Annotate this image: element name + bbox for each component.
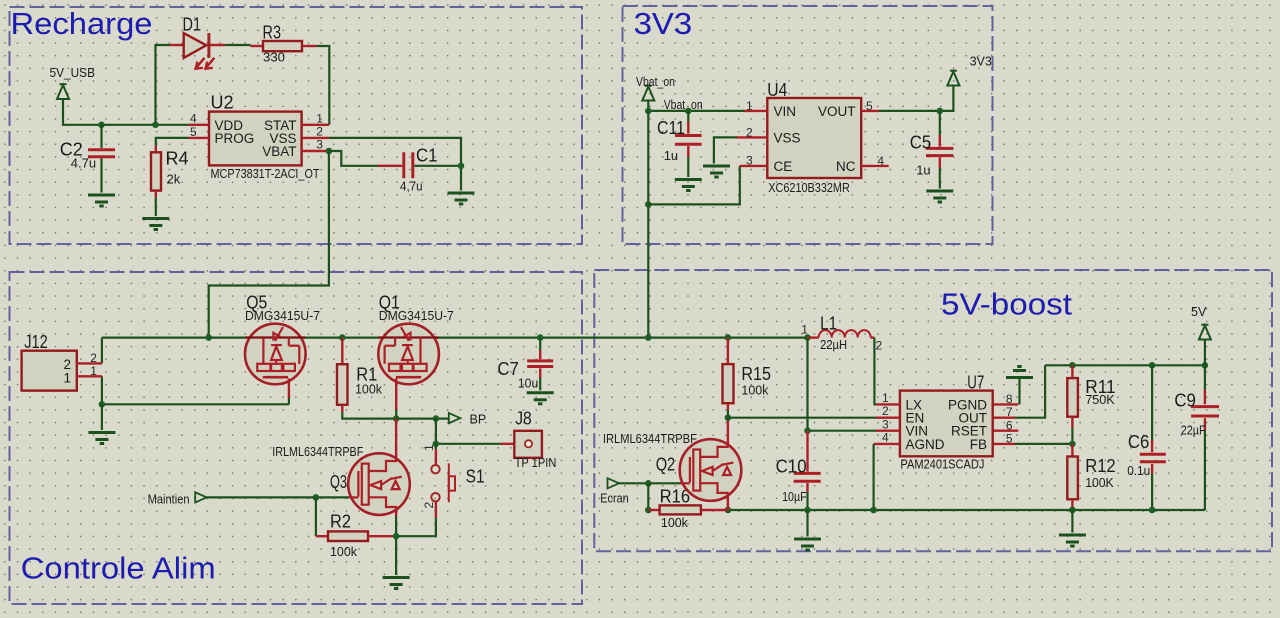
wire 5V_USB rail (63, 99, 189, 125)
wire Q3 source (395, 510, 397, 575)
transistor Q2 (680, 439, 742, 501)
node junction C1 right (458, 163, 465, 170)
wire to ground (101, 404, 103, 430)
svg-text:2: 2 (316, 125, 323, 139)
svg-text:BP: BP (470, 412, 487, 426)
svg-text:R12: R12 (1085, 456, 1116, 476)
node junction FB (1069, 441, 1076, 448)
node junction R2 right (393, 533, 400, 540)
node junction J8 (433, 441, 440, 448)
inductor L1 (808, 330, 875, 337)
node junction C11 (685, 108, 692, 115)
node junction CE (645, 201, 652, 208)
wire BP drop to J8/S1 (436, 419, 501, 444)
svg-text:1: 1 (422, 444, 436, 451)
svg-text:S1: S1 (466, 467, 485, 487)
arrow Maintien (195, 492, 207, 502)
svg-text:AGND: AGND (906, 437, 945, 452)
wire VSS to ground (714, 137, 737, 163)
switch S1 (431, 444, 455, 518)
svg-text:Q3: Q3 (330, 472, 347, 492)
svg-text:C11: C11 (657, 118, 685, 138)
wire VOUT to 3V3 (879, 86, 953, 111)
svg-text:100k: 100k (661, 515, 688, 530)
svg-text:100k: 100k (330, 544, 357, 559)
node junction recharge drop (205, 334, 212, 341)
ground C10 (794, 539, 821, 550)
ground C7 (527, 393, 554, 404)
capacitor C6 (1140, 365, 1166, 510)
svg-text:2: 2 (876, 339, 883, 353)
svg-text:VOUT: VOUT (818, 104, 856, 119)
svg-text:2: 2 (882, 404, 889, 418)
svg-text:Maintien: Maintien (148, 493, 190, 507)
ground R4 (142, 219, 169, 230)
ground J12 (88, 433, 115, 444)
svg-text:4: 4 (877, 154, 884, 168)
wire VIN branch (808, 338, 877, 431)
frame 3V3 (623, 6, 993, 244)
chip U4 (737, 98, 889, 178)
svg-text:R15: R15 (741, 364, 771, 384)
capacitor C7 (527, 338, 553, 391)
svg-text:5: 5 (1006, 432, 1013, 446)
power Vbat_on (642, 86, 654, 101)
node junction L1 left (804, 334, 811, 341)
svg-text:IRLML6344TRPBF: IRLML6344TRPBF (603, 431, 697, 446)
svg-text:3V3: 3V3 (634, 6, 693, 41)
node junction 5V stem (1202, 362, 1209, 369)
svg-text:R3: R3 (263, 23, 282, 43)
wire Q5 source down (288, 378, 290, 404)
svg-text:CE: CE (774, 159, 793, 174)
wire PROG to R4 (156, 138, 189, 146)
svg-text:R2: R2 (330, 511, 351, 531)
capacitor C1 (378, 152, 461, 178)
wire J12 pin2 up (101, 338, 103, 364)
svg-text:PAM2401SCADJ: PAM2401SCADJ (900, 456, 984, 471)
capacitor C2 (88, 125, 115, 193)
svg-text:Vbat_on: Vbat_on (664, 98, 703, 112)
node junction C6 top (1149, 362, 1156, 369)
svg-text:1: 1 (746, 99, 753, 113)
wire AGND down (872, 444, 874, 510)
svg-text:4: 4 (882, 431, 889, 445)
resistor R3 (251, 41, 317, 51)
svg-text:DMG3415U-7: DMG3415U-7 (245, 308, 320, 323)
capacitor C10 (794, 431, 821, 510)
wire Q3 drain (395, 419, 397, 458)
node junction Vbat main (645, 334, 652, 341)
resistor R11 (1067, 365, 1078, 444)
ground U4 VSS (703, 166, 730, 177)
svg-text:330: 330 (263, 50, 285, 65)
node junction rail AGND (870, 507, 877, 514)
frame Recharge (10, 7, 583, 244)
svg-text:7: 7 (1006, 405, 1013, 419)
svg-text:C7: C7 (497, 359, 519, 379)
wire R3 to STAT (317, 46, 330, 125)
svg-text:U7: U7 (967, 372, 984, 392)
svg-text:Recharge: Recharge (11, 6, 153, 41)
ground PGND (flipped up) (1006, 367, 1033, 378)
svg-text:100K: 100K (1085, 475, 1114, 490)
svg-text:1: 1 (801, 323, 808, 337)
node junction rail C6 (1149, 507, 1156, 514)
testpoint J8 (501, 431, 542, 458)
svg-text:C1: C1 (416, 146, 438, 166)
resistor R15 (723, 338, 734, 418)
connector J12 (22, 351, 102, 391)
wire C10 ground stem (806, 510, 808, 537)
svg-text:100k: 100k (355, 382, 382, 397)
svg-text:TP 1PIN: TP 1PIN (515, 455, 557, 470)
svg-text:4,7u: 4,7u (400, 179, 423, 194)
wire R4 to ground (155, 198, 157, 217)
wire OUT up to rail (1015, 365, 1045, 417)
arrow BP (449, 413, 461, 423)
ground VSS/C1 (448, 193, 475, 204)
node junction J12 gnd (99, 401, 106, 408)
node junction C7 (537, 334, 544, 341)
svg-text:R4: R4 (166, 149, 189, 169)
wire Q2 source (727, 496, 729, 510)
wire Q1 source down (395, 378, 397, 418)
node junction VBAT (326, 148, 333, 155)
svg-text:1: 1 (882, 391, 889, 405)
svg-text:2: 2 (746, 126, 753, 140)
node junction D1 (152, 122, 159, 129)
svg-text:10µF: 10µF (782, 489, 807, 504)
wire Q2 drain (727, 418, 729, 444)
svg-text:22µF: 22µF (1181, 422, 1206, 437)
capacitor C11 (675, 111, 702, 177)
transistor Q5 (245, 324, 306, 385)
wire L1 to LX (874, 338, 876, 405)
svg-text:6: 6 (1006, 418, 1013, 432)
svg-text:VBAT: VBAT (262, 144, 296, 159)
svg-text:3: 3 (882, 417, 889, 431)
wire Ecran to Q2 gate (619, 482, 681, 484)
wire FB (1015, 443, 1072, 445)
svg-text:Q2: Q2 (656, 454, 676, 474)
wire D1 to R3 (225, 44, 251, 46)
wire EN (728, 417, 876, 419)
svg-text:C9: C9 (1174, 390, 1196, 410)
svg-text:Ecran: Ecran (600, 492, 628, 506)
ground C11 (675, 180, 702, 191)
wire PGND up (1018, 379, 1020, 405)
node junction VIN/C10 (804, 427, 811, 434)
wire Ecran down to R16 (647, 483, 649, 510)
svg-text:J8: J8 (515, 408, 532, 428)
node junction Q1 source (393, 415, 400, 422)
svg-text:IRLML6344TRPBF: IRLML6344TRPBF (272, 444, 363, 459)
wire R12 to ground (1071, 510, 1073, 533)
resistor R4 (151, 146, 161, 198)
svg-text:Controle Alim: Controle Alim (21, 551, 216, 586)
svg-text:NC: NC (836, 159, 856, 174)
svg-text:Vbat_on: Vbat_on (636, 75, 675, 89)
wire VBAT jog to C1 (329, 151, 378, 166)
node junction C2 (98, 122, 105, 129)
svg-text:3V3: 3V3 (970, 55, 992, 69)
resistor R16 (648, 505, 728, 514)
resistor R2 (316, 531, 396, 541)
wire top rail (1045, 364, 1205, 366)
svg-text:750K: 750K (1085, 392, 1115, 407)
svg-text:U2: U2 (211, 93, 234, 113)
svg-text:5V_USB: 5V_USB (50, 66, 96, 80)
arrow Ecran (608, 478, 620, 488)
wire bottom rail (728, 509, 1205, 511)
svg-text:3: 3 (316, 138, 323, 152)
node junction R16 left (645, 507, 652, 514)
svg-text:1u: 1u (916, 162, 930, 177)
power 5V (1199, 325, 1211, 340)
ground C2 (88, 195, 115, 206)
node junction BP drop (433, 415, 440, 422)
ground Q3 (383, 578, 410, 589)
resistor R1 (337, 338, 348, 412)
wire VBAT down to Controle Alim (209, 151, 329, 338)
svg-text:VIN: VIN (774, 104, 797, 119)
node junction R1 top (339, 334, 346, 341)
svg-text:DMG3415U-7: DMG3415U-7 (379, 308, 454, 323)
svg-text:22µH: 22µH (820, 337, 847, 352)
node junction rail R16 (725, 507, 732, 514)
capacitor C9 (1191, 365, 1219, 510)
wire R1 bottom rail (342, 412, 449, 419)
svg-text:5: 5 (866, 99, 873, 113)
node junction R2 left (313, 494, 320, 501)
node junction R12 bottom (1069, 507, 1076, 514)
svg-text:5: 5 (190, 125, 197, 139)
chip U7 (874, 391, 1019, 457)
svg-text:J12: J12 (24, 332, 48, 352)
transistor Q3 (348, 453, 410, 515)
power 3V3 (947, 71, 959, 86)
svg-text:C6: C6 (1128, 432, 1150, 452)
svg-text:2k: 2k (167, 172, 181, 187)
svg-text:XC6210B332MR: XC6210B332MR (768, 180, 850, 195)
chip U2 (189, 112, 329, 166)
svg-text:MCP73831T-2ACI_OT: MCP73831T-2ACI_OT (211, 166, 320, 181)
svg-text:D1: D1 (183, 14, 202, 34)
wire Vbat_on rail (648, 101, 744, 111)
svg-text:100k: 100k (741, 382, 768, 397)
svg-text:FB: FB (970, 437, 987, 452)
svg-text:PROG: PROG (215, 131, 255, 146)
wire CE path (648, 166, 740, 205)
svg-text:5V: 5V (1191, 305, 1207, 319)
svg-text:3: 3 (746, 154, 753, 168)
svg-text:1: 1 (316, 111, 323, 125)
node junction C5 (937, 108, 944, 115)
main rail wire (102, 337, 808, 339)
power 5V_USB (57, 84, 69, 99)
svg-text:2: 2 (90, 351, 97, 365)
node junction R15 bottom (725, 414, 732, 421)
capacitor C5 (926, 111, 953, 189)
node junction Vbat stem (645, 108, 652, 115)
wire Vbat down to CE and main (647, 111, 649, 338)
frame 5V-boost (594, 270, 1272, 551)
svg-text:1: 1 (63, 370, 71, 385)
transistor Q1 (378, 324, 439, 385)
svg-text:0.1u: 0.1u (1127, 463, 1150, 478)
svg-text:1: 1 (90, 364, 97, 378)
svg-text:2: 2 (422, 502, 436, 509)
ground C5 (926, 191, 953, 202)
node junction R15 top (725, 334, 732, 341)
wire J12 pin1 down (102, 376, 289, 404)
wire S1 pin2 to R2 (396, 518, 436, 537)
svg-text:4: 4 (190, 112, 197, 126)
node junction Ecran (645, 480, 652, 487)
wire Maintien to Q3 gate (207, 496, 349, 498)
svg-text:8: 8 (1006, 392, 1013, 406)
LED D1 (170, 33, 225, 69)
wire VSS to ground (329, 138, 461, 191)
frame Controle Alim (10, 272, 583, 604)
svg-text:5V-boost: 5V-boost (941, 286, 1072, 321)
wire 5V stem (1204, 340, 1206, 366)
svg-text:C5: C5 (910, 132, 932, 152)
svg-text:4.7u: 4.7u (71, 155, 96, 170)
resistor R12 (1067, 444, 1078, 510)
svg-text:1u: 1u (664, 148, 678, 163)
wire D1 branch up (156, 45, 171, 125)
wire down to R2 (315, 497, 317, 536)
node junction R11 top (1069, 362, 1076, 369)
svg-text:C10: C10 (776, 457, 807, 477)
svg-text:U4: U4 (767, 80, 787, 100)
svg-text:VSS: VSS (774, 130, 801, 145)
node junction rail C10 (804, 507, 811, 514)
ground R12 (1059, 535, 1086, 546)
svg-text:L1: L1 (820, 313, 837, 333)
svg-text:10u: 10u (518, 376, 538, 391)
